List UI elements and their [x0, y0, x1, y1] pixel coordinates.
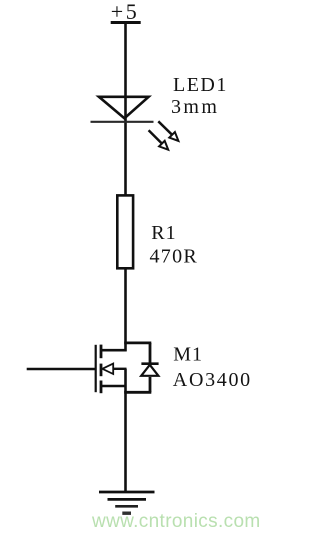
- svg-text:AO3400: AO3400: [173, 369, 252, 391]
- svg-text:3mm: 3mm: [171, 96, 219, 118]
- svg-text:+5: +5: [111, 0, 139, 24]
- svg-text:M1: M1: [173, 344, 203, 366]
- svg-text:470R: 470R: [150, 245, 199, 267]
- svg-text:LED1: LED1: [173, 74, 228, 96]
- svg-text:R1: R1: [151, 222, 176, 244]
- svg-text:www.cntronics.com: www.cntronics.com: [91, 511, 261, 532]
